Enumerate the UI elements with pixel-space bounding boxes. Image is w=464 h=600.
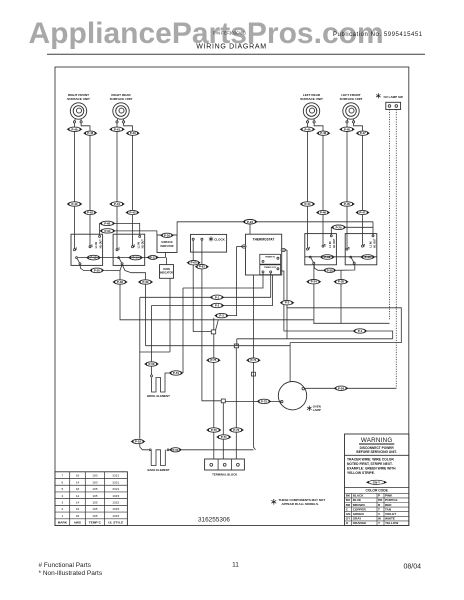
svg-text:18: 18 — [76, 514, 80, 518]
diagram border frame — [55, 67, 409, 526]
connector P-23 — [242, 219, 257, 223]
svg-text:BK: BK — [346, 494, 351, 498]
svg-text:H1 OUT: H1 OUT — [374, 238, 377, 247]
wire right front left lead — [74, 123, 76, 234]
connector P-12 inside switch — [86, 255, 101, 260]
wire oven indicator bottom stub — [169, 278, 171, 352]
wire hook to switch S3 top — [330, 227, 332, 235]
svg-text:MARK: MARK — [58, 521, 68, 525]
svg-text:P-72: P-72 — [261, 399, 267, 403]
svg-text:TRACER WIRE: WIRE COLOR: TRACER WIRE: WIRE COLOR — [347, 458, 394, 462]
svg-text:18: 18 — [76, 474, 80, 478]
svg-text:P-45: P-45 — [344, 127, 350, 131]
connector P-47 upper — [356, 131, 370, 135]
junction splice block C — [234, 344, 238, 348]
wire thermostat left feed — [237, 246, 246, 248]
svg-text:RED: RED — [385, 503, 392, 507]
svg-text:CLOCK: CLOCK — [214, 237, 225, 241]
svg-text:P-40: P-40 — [72, 202, 78, 206]
surface unit right rear terminal pins — [116, 119, 119, 121]
surface unit right front terminal pins — [74, 119, 77, 121]
connector P-17 — [147, 255, 159, 259]
svg-text:P-47: P-47 — [360, 211, 366, 215]
wire bake feed corner — [140, 444, 150, 450]
surface unit right front coil — [70, 103, 86, 119]
connector P-5 — [280, 301, 295, 305]
surface unit left rear coil — [303, 103, 319, 119]
svg-text:WARNING: WARNING — [361, 437, 393, 444]
connector P-72 — [257, 399, 272, 403]
svg-text:P-42: P-42 — [87, 211, 93, 215]
wire bus H308 — [287, 308, 401, 343]
svg-text:105: 105 — [92, 494, 97, 498]
svg-text:P-54: P-54 — [338, 386, 344, 390]
junction splice block A — [211, 330, 215, 334]
surface indicator box DS1 — [157, 235, 177, 253]
svg-text:WHITE: WHITE — [385, 517, 395, 521]
svg-text:4: 4 — [61, 494, 63, 498]
wire S1 bus drop to Y bus — [120, 284, 313, 320]
wire clock left run to splice — [193, 240, 211, 331]
connector P-40 upper — [67, 127, 83, 131]
svg-text:P-51: P-51 — [173, 371, 179, 375]
svg-text:P-5: P-5 — [285, 301, 290, 305]
svg-text:1015: 1015 — [112, 500, 119, 504]
connector P-20 — [331, 225, 347, 230]
switch left front switch terminals — [346, 234, 348, 249]
connector P-70 — [206, 428, 221, 432]
svg-text:105: 105 — [92, 487, 97, 491]
wire right front right lead — [81, 123, 90, 234]
bake element R2 — [151, 450, 165, 466]
svg-text:P-17: P-17 — [150, 255, 156, 259]
connector P-54 — [334, 386, 349, 390]
wire top distribution run — [177, 222, 373, 235]
connector P-52 — [131, 439, 146, 443]
svg-text:3321: 3321 — [112, 487, 119, 491]
svg-text:BLACK: BLACK — [353, 494, 365, 498]
svg-text:P-46: P-46 — [320, 211, 326, 215]
svg-text:150: 150 — [92, 474, 97, 478]
thermostat right bump connector — [281, 248, 285, 251]
svg-text:P-40: P-40 — [72, 127, 78, 131]
wire bus H331 — [281, 271, 393, 339]
svg-text:EXAMPLE: GREEN WIRE WITH: EXAMPLE: GREEN WIRE WITH — [347, 466, 396, 470]
connector P-42 lower — [83, 210, 97, 214]
svg-text:T: T — [378, 507, 380, 511]
svg-text:P-46: P-46 — [320, 131, 326, 135]
switch left rear switch terminals — [307, 234, 309, 249]
switch right rear switch terminals — [116, 234, 118, 249]
wire hook to switch S4 top — [346, 226, 373, 228]
wire bus H305 — [152, 275, 273, 306]
switch left rear switch pin labels — [308, 238, 336, 249]
svg-text:105: 105 — [92, 500, 97, 504]
wire switch S3 output chain — [314, 264, 323, 270]
connector P-16 on surface indicator — [160, 233, 174, 237]
svg-text:L1 IN: L1 IN — [95, 242, 98, 248]
wire Y diagonal — [216, 320, 219, 331]
svg-text:UL STYLE: UL STYLE — [108, 521, 123, 525]
switch left front switch pin labels — [347, 238, 376, 249]
bake element terminals — [149, 449, 151, 451]
svg-text:P-73: P-73 — [233, 428, 239, 432]
connector P-46 upper — [316, 131, 330, 135]
svg-text:P-74: P-74 — [250, 358, 256, 362]
svg-text:INDICATOR: INDICATOR — [160, 272, 173, 275]
wire thermostat left drop via P-3 — [228, 247, 236, 316]
svg-text:P-44: P-44 — [305, 127, 311, 131]
oven indicator box DS2 — [160, 265, 174, 279]
wire oven feed drop V253 — [253, 275, 255, 450]
svg-text:P-60: P-60 — [191, 261, 197, 265]
connector P-51 — [169, 371, 184, 375]
header rule — [47, 53, 425, 55]
wire drop to switch S4 — [372, 222, 374, 235]
svg-text:BU: BU — [346, 498, 351, 502]
wire clock right run — [202, 240, 221, 401]
svg-text:TIMER IN: TIMER IN — [265, 256, 275, 258]
svg-text:P-16: P-16 — [164, 233, 170, 237]
connector P-1 — [210, 295, 225, 299]
wire left rear right lead — [314, 123, 323, 234]
svg-text:OV LAMP SW: OV LAMP SW — [384, 95, 403, 99]
svg-text:VIOLET: VIOLET — [385, 512, 396, 516]
wire lamp switch right (dashed) — [395, 110, 397, 389]
svg-text:P-71: P-71 — [221, 435, 227, 439]
connector P-2 — [210, 303, 225, 307]
switch right rear switch blade — [118, 257, 120, 259]
terminal block TB1 — [205, 459, 245, 470]
broil element R1 — [152, 378, 166, 393]
thermostat left bump connector — [242, 245, 246, 248]
wire right rear right lead — [124, 123, 133, 234]
svg-text:P-52: P-52 — [135, 440, 141, 444]
svg-text:L1 IN: L1 IN — [329, 241, 332, 247]
svg-text:P-3: P-3 — [219, 314, 224, 318]
svg-text:11: 11 — [232, 562, 239, 569]
wire chain to switch S2 pivot — [104, 270, 120, 282]
connector P-43 lower — [125, 210, 139, 214]
svg-text:* Non-Illustrated Parts: * Non-Illustrated Parts — [39, 570, 103, 577]
connector P-43 upper — [126, 131, 140, 135]
wire switch S1 output chain — [80, 265, 89, 271]
svg-text:14: 14 — [76, 480, 80, 484]
svg-text:PURPLE: PURPLE — [385, 498, 398, 502]
svg-text:BAKE ELEMENT: BAKE ELEMENT — [147, 468, 169, 472]
svg-text:7: 7 — [61, 474, 63, 478]
wire left rear left lead — [307, 123, 309, 234]
svg-text:P-4: P-4 — [358, 329, 363, 333]
surface unit left front coil — [343, 103, 359, 119]
svg-text:TIMER OUT: TIMER OUT — [264, 267, 277, 269]
connector P-36 — [323, 268, 337, 272]
surface unit left rear terminal pins — [307, 119, 310, 121]
svg-text:P-66: P-66 — [104, 221, 110, 225]
connector P-53 — [169, 448, 182, 452]
svg-text:P-30: P-30 — [94, 268, 100, 272]
wire bus H352 — [140, 351, 170, 353]
switch right front switch box S1 — [71, 234, 103, 265]
svg-text:P/N FEF303CWB: P/N FEF303CWB — [213, 31, 246, 36]
connector P-40 lower — [67, 202, 83, 206]
thermostat box U2 — [246, 234, 282, 275]
wire surface indicator bottom stub — [165, 253, 167, 258]
svg-text:P-47: P-47 — [360, 131, 366, 135]
svg-text:L1 IN: L1 IN — [137, 242, 140, 248]
svg-text:3321: 3321 — [112, 474, 119, 478]
svg-text:6: 6 — [61, 480, 63, 484]
connector P-66 — [99, 221, 115, 225]
svg-text:INDICATOR: INDICATOR — [160, 245, 173, 248]
svg-text:P-42: P-42 — [87, 131, 93, 135]
wire oven indicator top stub — [166, 258, 168, 265]
svg-text:APPEAR IN ALL MODELS.: APPEAR IN ALL MODELS. — [282, 502, 320, 506]
svg-text:P-64: P-64 — [105, 229, 111, 233]
connector P-42 upper — [83, 131, 97, 135]
connector P-34 — [306, 280, 321, 284]
svg-text:2: 2 — [61, 507, 63, 511]
clock box U1 — [191, 234, 227, 252]
wire left front left lead — [346, 123, 348, 234]
svg-text:P-44: P-44 — [305, 202, 311, 206]
svg-text:P-24: P-24 — [247, 220, 253, 224]
wire lamp branch — [225, 400, 281, 402]
note asterisk components — [271, 499, 276, 505]
svg-text:105: 105 — [92, 514, 97, 518]
svg-text:P-41: P-41 — [114, 202, 120, 206]
svg-text:H1 OUT: H1 OUT — [142, 239, 145, 248]
svg-text:P-35: P-35 — [338, 280, 344, 284]
connector P-35 — [333, 280, 348, 284]
wire chain to switch S4 pivot — [336, 264, 355, 270]
broil element terminal — [151, 366, 153, 375]
svg-text:YELLOW STRIPE.: YELLOW STRIPE. — [347, 471, 375, 475]
wire S4 bus drop — [340, 270, 342, 323]
switch left rear switch blade — [309, 256, 311, 258]
switch right front switch blade — [76, 257, 78, 259]
svg-text:GN-Y: GN-Y — [373, 480, 380, 484]
svg-text:P-33: P-33 — [143, 280, 149, 284]
svg-text:P-36: P-36 — [327, 268, 333, 272]
connector P-45 upper — [339, 127, 355, 131]
svg-text:105: 105 — [92, 507, 97, 511]
connector P-64 — [99, 229, 115, 233]
svg-text:16: 16 — [76, 507, 80, 511]
connector P-32 — [112, 280, 127, 284]
switch right rear switch box S2 — [113, 234, 145, 265]
svg-text:SURFACE UNIT: SURFACE UNIT — [300, 97, 323, 101]
wire lamp switch left (dashed) — [389, 110, 391, 320]
svg-text:ORANGE: ORANGE — [353, 521, 367, 525]
wire bake right lead — [168, 449, 171, 451]
wire broil right lead — [165, 373, 169, 378]
wire splice2 feed — [236, 339, 238, 346]
svg-text:GREEN: GREEN — [353, 512, 365, 516]
svg-text:TERMINAL BLOCK: TERMINAL BLOCK — [212, 472, 237, 476]
svg-text:1015: 1015 — [112, 494, 119, 498]
wire timer feed drop — [222, 403, 224, 459]
svg-text:1015: 1015 — [112, 507, 119, 511]
wire switch row link left — [78, 257, 166, 259]
svg-text:5: 5 — [61, 487, 63, 491]
clock terminals — [192, 238, 194, 240]
connector P-14 inside switch — [128, 255, 143, 260]
connector P-44 lower — [300, 202, 316, 206]
svg-text:P-43: P-43 — [130, 131, 136, 135]
wire oven feed drop V290 — [289, 343, 291, 382]
surface unit right rear coil — [113, 103, 129, 119]
svg-text:08/04: 08/04 — [404, 564, 422, 571]
svg-text:3321: 3321 — [112, 480, 119, 484]
svg-text:H1 OUT: H1 OUT — [333, 238, 336, 247]
svg-text:BEFORE SERVICING UNIT.: BEFORE SERVICING UNIT. — [356, 450, 397, 454]
svg-text:SURFACE UNIT: SURFACE UNIT — [110, 97, 133, 101]
svg-text:NOTED FIRST, STRIPE NEXT.: NOTED FIRST, STRIPE NEXT. — [347, 462, 393, 466]
wire gauge table — [55, 472, 127, 526]
svg-text:14: 14 — [76, 500, 80, 504]
svg-text:1015: 1015 — [112, 514, 119, 518]
wire main L1 drop to terminal block — [213, 334, 215, 459]
switch left front switch blade — [350, 256, 352, 258]
svg-text:1: 1 — [61, 514, 63, 518]
svg-text:P-75: P-75 — [210, 358, 216, 362]
connector P-60 — [187, 261, 201, 265]
wire broil return — [182, 288, 184, 373]
switch left front switch box S4 — [345, 234, 377, 265]
wire switch S2 output — [122, 265, 145, 346]
svg-text:P-70: P-70 — [211, 428, 217, 432]
oven lamp DS3 — [278, 382, 306, 410]
wire hook to surface indicator — [115, 231, 157, 235]
svg-text:COLOR CODE: COLOR CODE — [365, 488, 388, 492]
svg-text:3: 3 — [61, 500, 63, 504]
wire bake return — [182, 449, 254, 451]
svg-text:SURFACE UNIT: SURFACE UNIT — [340, 97, 363, 101]
svg-text:12: 12 — [76, 494, 80, 498]
svg-text:WIRING DIAGRAM: WIRING DIAGRAM — [196, 43, 266, 50]
surface unit left front terminal pins — [346, 119, 349, 121]
svg-text:P-32: P-32 — [117, 280, 123, 284]
wire switch row link right — [305, 256, 377, 258]
wire thermostat right drop V287 — [286, 250, 288, 339]
wire bake left feed — [139, 297, 141, 439]
switch right front switch terminals — [74, 234, 76, 249]
switch left rear switch box S3 — [305, 234, 337, 265]
connector P-44 upper — [300, 127, 316, 131]
connector P-73 — [229, 428, 244, 432]
wire bus H323 — [313, 322, 389, 324]
wire thermostat top feed — [249, 222, 251, 234]
svg-text:P-34: P-34 — [311, 280, 317, 284]
svg-text:BR: BR — [346, 503, 351, 507]
svg-text:H1 OUT: H1 OUT — [99, 239, 102, 248]
connector P-45 lower — [339, 202, 355, 206]
wire thermostat right feed — [282, 249, 287, 251]
junction splice block B — [221, 399, 225, 403]
wire hook to switch S2 top — [115, 223, 140, 235]
svg-text:P-45: P-45 — [344, 202, 350, 206]
oven lamp label — [307, 406, 312, 411]
connector P-15 inside switch — [360, 255, 375, 260]
warning box — [345, 434, 409, 526]
connector P-74 — [246, 358, 261, 362]
wire hook to switch S1 top — [99, 223, 101, 235]
wire bus H345 — [146, 345, 291, 347]
svg-text:BLUE: BLUE — [353, 498, 361, 502]
svg-text:L1 IN: L1 IN — [369, 241, 372, 247]
connector P-46 lower — [316, 210, 330, 214]
connector P-24 on top run — [242, 220, 257, 224]
wire lamp to switch — [304, 387, 396, 389]
wire right rear left lead — [116, 123, 118, 234]
svg-text:P-61: P-61 — [199, 265, 205, 269]
oven lamp switch SW1 — [386, 102, 401, 109]
svg-text:TAN: TAN — [385, 507, 392, 511]
svg-text:SURFACE: SURFACE — [161, 241, 173, 244]
svg-text:P-43: P-43 — [130, 211, 136, 215]
connector P-33 — [138, 280, 153, 284]
wire bus H338 — [237, 338, 393, 340]
svg-text:BROWN: BROWN — [353, 503, 366, 507]
connector P-4 — [353, 329, 368, 333]
svg-text:P-1: P-1 — [215, 295, 220, 299]
connector P-50 — [144, 362, 159, 366]
connector P-41 upper — [109, 127, 125, 131]
connector P-41 lower — [109, 202, 125, 206]
svg-text:P: P — [378, 494, 380, 498]
svg-text:THERMOSTAT: THERMOSTAT — [253, 238, 275, 242]
svg-text:PR: PR — [378, 498, 383, 502]
svg-text:W: W — [378, 517, 381, 521]
svg-text:COPPER: COPPER — [353, 507, 367, 511]
svg-text:P-50: P-50 — [149, 362, 155, 366]
wire P-3 drop to splice — [213, 318, 215, 330]
svg-text:PINK: PINK — [385, 494, 393, 498]
svg-text:# Functional Parts: # Functional Parts — [39, 562, 92, 569]
connector P-71 — [216, 435, 231, 439]
svg-text:GRAY: GRAY — [353, 517, 363, 521]
svg-text:LAMP: LAMP — [313, 408, 321, 412]
connector P-75 — [206, 358, 221, 362]
timer in contact block — [260, 254, 281, 264]
svg-text:BROIL ELEMENT: BROIL ELEMENT — [147, 394, 170, 398]
svg-text:GN: GN — [346, 512, 351, 516]
svg-text:P-41: P-41 — [114, 127, 120, 131]
connector P-61 — [195, 265, 209, 269]
switch right rear switch pin labels — [117, 239, 144, 250]
svg-text:P-2: P-2 — [215, 304, 220, 308]
wire bus H288 — [183, 273, 263, 288]
connector P-3 — [214, 313, 229, 317]
wire bus H297 — [140, 273, 271, 297]
svg-text:150: 150 — [92, 480, 97, 484]
connector P-47 lower — [355, 210, 369, 214]
connector P-30 — [89, 268, 104, 273]
timer out contact block — [260, 265, 281, 275]
junction splice block D — [251, 372, 255, 376]
switch right front switch pin labels — [75, 239, 103, 250]
wire splice2 drop to terminal block — [235, 348, 237, 459]
wire broil left feed — [151, 306, 153, 362]
wire left front right lead — [354, 123, 363, 234]
connector P-13 inside switch — [320, 255, 335, 260]
svg-text:AWG: AWG — [74, 521, 82, 525]
svg-text:P-20: P-20 — [336, 225, 342, 229]
svg-text:P-53: P-53 — [173, 448, 179, 452]
wire S3 bus drop — [313, 264, 315, 323]
svg-text:YELLOW: YELLOW — [385, 521, 398, 525]
